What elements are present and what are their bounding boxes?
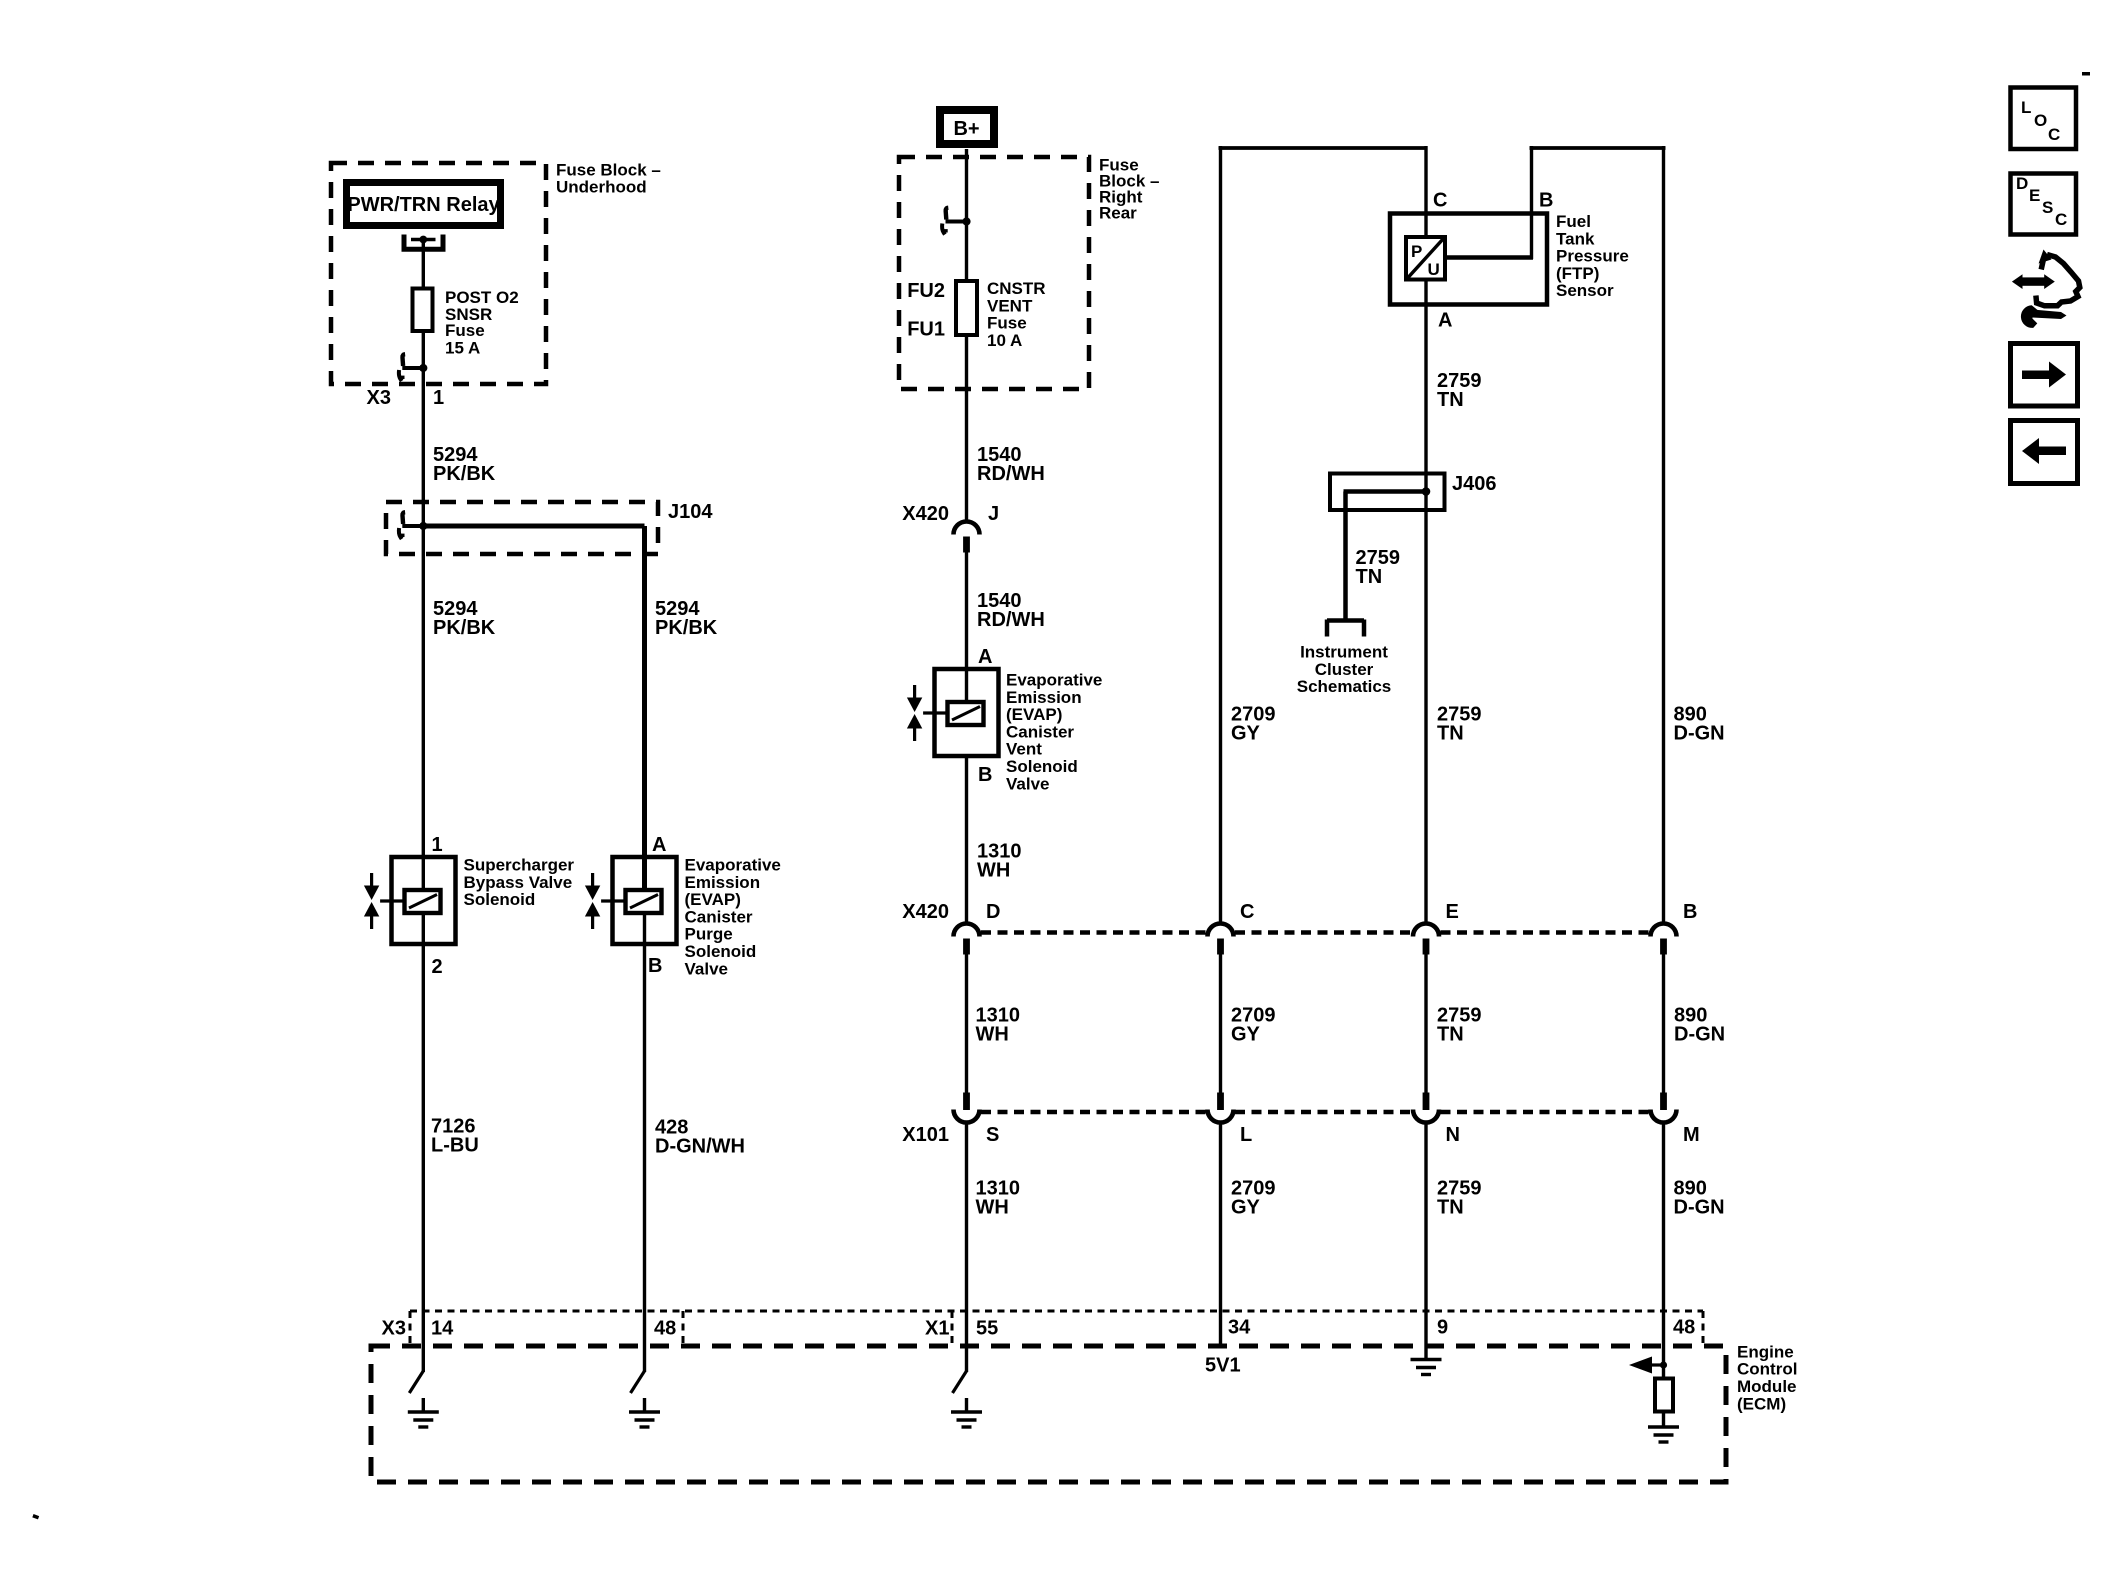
svg-text:Instrument: Instrument [1300,643,1388,662]
svg-text:X3: X3 [367,387,391,409]
svg-text:PK/BK: PK/BK [655,617,718,639]
svg-text:U: U [1428,260,1440,279]
svg-text:E: E [2029,186,2040,205]
svg-text:55: 55 [976,1318,998,1340]
svg-text:X420: X420 [902,503,949,525]
svg-text:B+: B+ [953,118,979,140]
svg-text:L: L [2021,98,2031,117]
svg-text:(ECM): (ECM) [1737,1394,1786,1413]
svg-text:Canister: Canister [1006,722,1074,741]
svg-text:B: B [1539,190,1553,212]
svg-text:CNSTR: CNSTR [987,279,1046,298]
svg-text:FU2: FU2 [907,280,945,302]
svg-text:Pressure: Pressure [1556,247,1629,266]
svg-text:Fuse: Fuse [987,314,1027,333]
svg-text:15 A: 15 A [445,338,480,357]
svg-text:48: 48 [654,1318,676,1340]
svg-text:E: E [1446,901,1459,923]
svg-text:Underhood: Underhood [556,178,647,197]
svg-text:D-GN: D-GN [1674,1197,1725,1219]
svg-text:B: B [648,955,662,977]
svg-text:X420: X420 [902,901,949,923]
svg-text:X1: X1 [925,1318,949,1340]
svg-text:(FTP): (FTP) [1556,264,1599,283]
svg-text:Fuse Block –: Fuse Block – [556,160,661,179]
svg-text:Solenoid: Solenoid [685,942,757,961]
svg-text:Vent: Vent [1006,740,1042,759]
svg-text:2: 2 [432,956,443,978]
svg-text:TN: TN [1437,389,1464,411]
svg-text:RD/WH: RD/WH [977,463,1045,485]
svg-text:B: B [1683,901,1697,923]
svg-text:GY: GY [1231,1197,1261,1219]
svg-text:C: C [1240,901,1254,923]
svg-text:Valve: Valve [1006,774,1050,793]
svg-text:Valve: Valve [685,959,729,978]
svg-text:WH: WH [977,859,1010,881]
svg-text:(EVAP): (EVAP) [1006,705,1062,724]
svg-text:Cluster: Cluster [1315,660,1374,679]
svg-text:Purge: Purge [685,925,733,944]
svg-text:(EVAP): (EVAP) [685,890,741,909]
svg-text:D-GN/WH: D-GN/WH [655,1136,745,1158]
svg-text:14: 14 [431,1318,454,1340]
svg-text:Canister: Canister [685,907,753,926]
svg-text:Rear: Rear [1099,203,1137,222]
svg-text:Schematics: Schematics [1297,677,1392,696]
svg-text:M: M [1683,1124,1700,1146]
svg-text:TN: TN [1437,1197,1464,1219]
svg-text:PK/BK: PK/BK [433,463,496,485]
svg-text:L: L [1240,1124,1252,1146]
svg-text:TN: TN [1356,566,1383,588]
svg-text:J406: J406 [1452,473,1497,495]
svg-text:S: S [2042,198,2053,217]
svg-text:Control: Control [1737,1360,1797,1379]
svg-text:34: 34 [1228,1317,1251,1339]
svg-text:Emission: Emission [1006,688,1082,707]
svg-text:L-BU: L-BU [431,1135,479,1157]
svg-text:D: D [986,901,1000,923]
svg-text:FU1: FU1 [907,319,945,341]
svg-text:9: 9 [1437,1317,1448,1339]
svg-text:A: A [978,646,992,668]
svg-text:O: O [2034,111,2047,130]
svg-text:WH: WH [976,1024,1009,1046]
svg-text:WH: WH [976,1197,1009,1219]
svg-text:Evaporative: Evaporative [685,856,781,875]
svg-text:RD/WH: RD/WH [977,609,1045,631]
svg-text:48: 48 [1673,1317,1695,1339]
svg-text:GY: GY [1231,1024,1261,1046]
svg-text:J104: J104 [668,501,713,523]
svg-text:C: C [2055,210,2067,229]
svg-text:Module: Module [1737,1377,1797,1396]
svg-text:D-GN: D-GN [1674,723,1725,745]
svg-text:TN: TN [1437,1024,1464,1046]
svg-text:Sensor: Sensor [1556,281,1614,300]
svg-text:Supercharger: Supercharger [464,856,575,875]
svg-text:1: 1 [432,834,443,856]
svg-text:Emission: Emission [685,873,761,892]
svg-text:PK/BK: PK/BK [433,617,496,639]
svg-text:X3: X3 [382,1318,406,1340]
svg-text:10 A: 10 A [987,331,1022,350]
svg-text:J: J [988,503,999,525]
svg-text:Evaporative: Evaporative [1006,671,1102,690]
svg-text:D: D [2016,174,2028,193]
svg-text:D-GN: D-GN [1674,1024,1725,1046]
svg-text:Fuel: Fuel [1556,212,1591,231]
svg-text:5V1: 5V1 [1205,1355,1241,1377]
svg-text:X101: X101 [902,1124,949,1146]
svg-text:Bypass Valve: Bypass Valve [464,873,573,892]
svg-text:P: P [1411,242,1422,261]
svg-text:PWR/TRN Relay: PWR/TRN Relay [347,194,500,216]
svg-text:B: B [978,764,992,786]
svg-text:N: N [1446,1124,1460,1146]
svg-text:C: C [1433,190,1447,212]
svg-text:C: C [2048,125,2060,144]
svg-text:VENT: VENT [987,296,1033,315]
svg-text:Solenoid: Solenoid [1006,757,1078,776]
svg-text:S: S [986,1124,999,1146]
svg-text:A: A [652,834,666,856]
svg-text:1: 1 [433,387,444,409]
svg-text:GY: GY [1231,723,1261,745]
svg-text:Solenoid: Solenoid [464,890,536,909]
svg-text:Tank: Tank [1556,229,1595,248]
svg-text:A: A [1438,310,1452,332]
svg-text:Engine: Engine [1737,1342,1794,1361]
svg-text:TN: TN [1437,723,1464,745]
